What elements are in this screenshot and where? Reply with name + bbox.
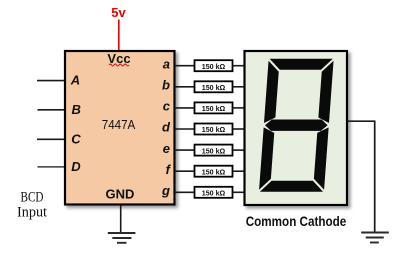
wire R5 to display bbox=[233, 149, 245, 151]
wire g to R7 bbox=[175, 191, 194, 193]
segment d bbox=[260, 181, 324, 192]
svg-text:a: a bbox=[163, 56, 170, 71]
ground symbol (cathode) bbox=[361, 233, 389, 243]
svg-text:150 kΩ: 150 kΩ bbox=[202, 125, 226, 134]
pin label C bbox=[71, 131, 81, 146]
label BCD Input bbox=[17, 190, 47, 221]
svg-text:A: A bbox=[70, 73, 80, 88]
svg-text:150 kΩ: 150 kΩ bbox=[202, 62, 226, 71]
pin label D bbox=[71, 159, 81, 174]
svg-text:150 kΩ: 150 kΩ bbox=[202, 146, 226, 155]
svg-text:b: b bbox=[162, 78, 170, 93]
pin label A bbox=[70, 73, 80, 88]
svg-text:g: g bbox=[161, 183, 170, 198]
svg-text:Input: Input bbox=[17, 205, 47, 221]
7-segment display DS1 body bbox=[245, 51, 348, 205]
svg-text:150 kΩ: 150 kΩ bbox=[202, 83, 226, 92]
resistor R7 bbox=[195, 187, 233, 198]
wire e to R5 bbox=[175, 149, 194, 151]
resistor R6 bbox=[195, 166, 233, 177]
svg-text:c: c bbox=[163, 99, 171, 114]
svg-text:Common Cathode: Common Cathode bbox=[246, 213, 347, 229]
svg-text:150 kΩ: 150 kΩ bbox=[202, 104, 226, 113]
svg-text:B: B bbox=[72, 102, 81, 117]
wire R7 to display bbox=[233, 191, 245, 193]
wire d to R4 bbox=[175, 128, 194, 130]
wire R1 to display bbox=[233, 65, 245, 67]
resistor R2 bbox=[195, 81, 233, 92]
pin label f bbox=[166, 162, 172, 177]
svg-text:BCD: BCD bbox=[21, 190, 44, 206]
7-segment digit 8 bbox=[259, 59, 334, 192]
segment g bbox=[265, 120, 328, 131]
wire GND to ground bbox=[120, 206, 122, 233]
wire 5v to Vcc (red) bbox=[118, 20, 120, 51]
wire a to R1 bbox=[175, 65, 194, 67]
segment a bbox=[269, 59, 333, 70]
wire b to R2 bbox=[175, 86, 194, 88]
wire f to R6 bbox=[175, 170, 194, 172]
pin label e bbox=[163, 141, 170, 156]
red squiggle under Vcc bbox=[109, 64, 129, 66]
resistor R1 bbox=[195, 60, 233, 71]
pin label a bbox=[163, 56, 170, 71]
wire c to R3 bbox=[175, 107, 194, 109]
segment e bbox=[259, 127, 275, 189]
resistor R3 bbox=[195, 102, 233, 113]
svg-text:5v: 5v bbox=[111, 5, 126, 20]
svg-text:d: d bbox=[162, 120, 171, 135]
wire input A bbox=[37, 80, 65, 82]
svg-text:7447A: 7447A bbox=[102, 117, 136, 132]
wire input B bbox=[38, 109, 66, 111]
segment c bbox=[313, 127, 329, 189]
pin label c bbox=[163, 99, 171, 114]
part number 7447A bbox=[102, 117, 136, 132]
svg-text:150 kΩ: 150 kΩ bbox=[202, 189, 226, 198]
svg-text:e: e bbox=[163, 141, 170, 156]
wire R6 to display bbox=[233, 170, 245, 172]
svg-text:150 kΩ: 150 kΩ bbox=[202, 167, 226, 176]
pin label b bbox=[162, 78, 170, 93]
wire input C bbox=[37, 138, 65, 140]
resistor R4 bbox=[195, 124, 233, 135]
wire R2 to display bbox=[233, 86, 245, 88]
wire input D bbox=[38, 166, 66, 168]
power net 5v label bbox=[111, 5, 126, 20]
IC U1 7447A body bbox=[65, 51, 175, 205]
wire display cathode (horizontal) bbox=[348, 120, 376, 122]
resistor R5 bbox=[195, 145, 233, 156]
svg-text:GND: GND bbox=[106, 187, 135, 202]
wire R3 to display bbox=[233, 107, 245, 109]
pin label B bbox=[72, 102, 81, 117]
wire R4 to display bbox=[233, 128, 245, 130]
label Common Cathode bbox=[246, 213, 347, 229]
segment f bbox=[264, 61, 280, 123]
pin label d bbox=[162, 120, 171, 135]
wire display cathode (vertical) bbox=[374, 121, 376, 232]
svg-text:C: C bbox=[71, 131, 81, 146]
pin label Vcc bbox=[107, 51, 130, 66]
ground symbol (IC GND) bbox=[108, 233, 136, 243]
pin label GND bbox=[106, 187, 135, 202]
pin label g bbox=[161, 183, 170, 198]
segment b bbox=[318, 61, 334, 123]
svg-text:D: D bbox=[71, 159, 81, 174]
